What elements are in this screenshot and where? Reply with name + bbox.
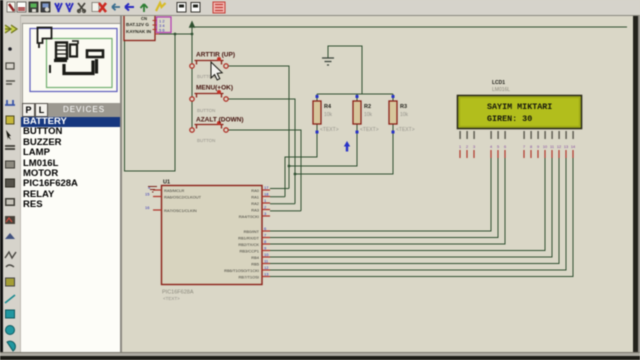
svg-text:R2: R2 — [364, 104, 371, 110]
svg-text:SAYIM MIKTARI: SAYIM MIKTARI — [487, 102, 552, 112]
svg-text:PIC16F628A: PIC16F628A — [162, 290, 194, 296]
svg-text:7: 7 — [523, 145, 525, 149]
svg-text:RA0: RA0 — [251, 188, 260, 193]
svg-text:10: 10 — [264, 252, 269, 257]
svg-text:BUTTON: BUTTON — [197, 108, 215, 113]
svg-text:10k: 10k — [324, 112, 333, 118]
svg-text:14: 14 — [571, 145, 575, 149]
svg-text:3: 3 — [264, 211, 267, 216]
svg-text:RA1: RA1 — [251, 195, 260, 200]
svg-text:9: 9 — [264, 246, 267, 251]
svg-text:1: 1 — [459, 145, 461, 149]
svg-text:RA2: RA2 — [251, 201, 260, 206]
svg-text:RB0/INT: RB0/INT — [244, 229, 260, 234]
svg-text:11: 11 — [550, 145, 554, 149]
svg-text:<TEXT>: <TEXT> — [396, 127, 415, 133]
svg-text:6: 6 — [264, 226, 267, 231]
svg-text:5: 5 — [497, 145, 499, 149]
svg-text:13: 13 — [264, 272, 269, 277]
svg-text:RA4/T0CKI: RA4/T0CKI — [239, 214, 259, 219]
svg-text:16: 16 — [145, 205, 150, 210]
svg-text:RB7/T1OSI: RB7/T1OSI — [239, 275, 259, 280]
svg-text:RB1/RX/DT: RB1/RX/DT — [238, 236, 259, 241]
svg-text:BAT.12V G: BAT.12V G — [126, 22, 149, 27]
svg-text:5 6: 5 6 — [159, 28, 165, 33]
svg-text:<TEXT>: <TEXT> — [360, 127, 379, 133]
svg-text:17: 17 — [264, 185, 269, 190]
svg-text:RB5: RB5 — [251, 262, 260, 267]
svg-text:<TEXT>: <TEXT> — [320, 127, 339, 133]
svg-text:RB4: RB4 — [251, 255, 260, 260]
svg-text:15: 15 — [145, 192, 150, 197]
svg-text:7: 7 — [264, 233, 267, 238]
svg-text:18: 18 — [264, 192, 269, 197]
svg-text:U1: U1 — [163, 180, 170, 186]
svg-text:10k: 10k — [364, 112, 373, 118]
svg-text:10: 10 — [543, 145, 547, 149]
svg-text:6: 6 — [504, 145, 506, 149]
svg-text:CN: CN — [141, 16, 147, 21]
svg-text:8: 8 — [530, 145, 532, 149]
svg-text:LM016L: LM016L — [492, 87, 510, 93]
svg-text:LCD1: LCD1 — [492, 80, 505, 86]
svg-text:MENU(+OK): MENU(+OK) — [196, 85, 233, 92]
svg-text:BUTTON: BUTTON — [197, 138, 215, 143]
svg-text:3: 3 — [473, 145, 475, 149]
svg-text:RA5/MCLR: RA5/MCLR — [164, 188, 184, 193]
svg-text:RA6/OSC2/CLKOUT: RA6/OSC2/CLKOUT — [164, 195, 202, 200]
svg-text:AZALT (DOWN): AZALT (DOWN) — [196, 117, 244, 124]
svg-text:GIREN: 30: GIREN: 30 — [487, 114, 532, 124]
svg-text:R3: R3 — [400, 104, 407, 110]
svg-text:1: 1 — [264, 198, 267, 203]
svg-text:RA7/OSC1/CLKIN: RA7/OSC1/CLKIN — [164, 208, 197, 213]
svg-text:13: 13 — [564, 145, 568, 149]
svg-text:2: 2 — [264, 205, 267, 210]
svg-text:9: 9 — [537, 145, 539, 149]
svg-text:2: 2 — [466, 145, 468, 149]
svg-text:11: 11 — [264, 259, 269, 264]
svg-text:4: 4 — [490, 145, 492, 149]
svg-text:RB6/T1OSO/T1CKI: RB6/T1OSO/T1CKI — [224, 268, 259, 273]
svg-text:ARTTIR (UP): ARTTIR (UP) — [196, 52, 235, 59]
svg-text:R4: R4 — [324, 104, 332, 110]
svg-text:RA3: RA3 — [251, 208, 260, 213]
svg-text:RB2/TX/CK: RB2/TX/CK — [238, 242, 259, 247]
svg-text:<TEXT>: <TEXT> — [163, 296, 180, 301]
svg-text:8: 8 — [264, 239, 267, 244]
svg-text:10k: 10k — [400, 112, 409, 118]
svg-text:KAYNAK IN: KAYNAK IN — [126, 29, 152, 34]
svg-text:12: 12 — [264, 265, 269, 270]
svg-text:RB3/CCP1: RB3/CCP1 — [239, 249, 259, 254]
svg-text:12: 12 — [557, 145, 561, 149]
